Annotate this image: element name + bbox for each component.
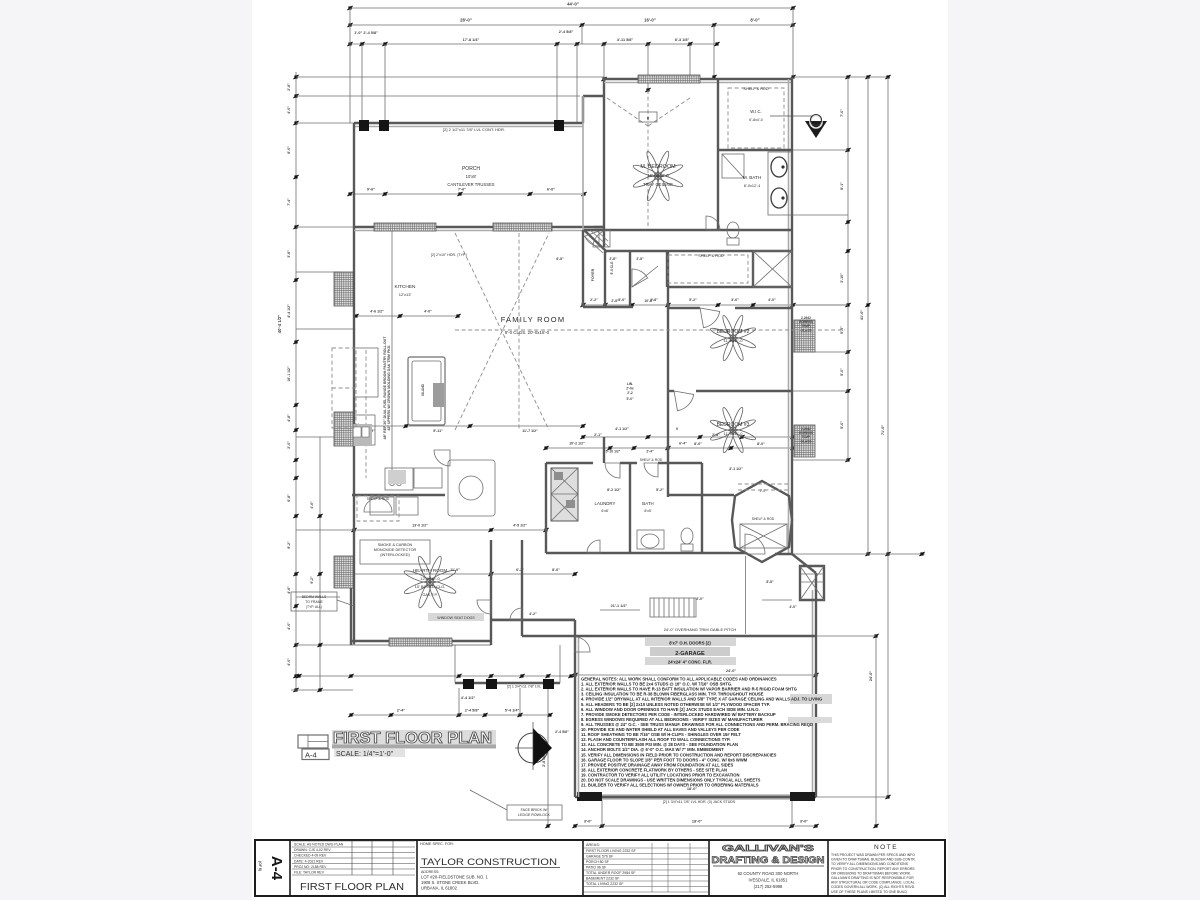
svg-text:2'-4 5/8": 2'-4 5/8" (555, 730, 569, 734)
svg-text:GLASS: GLASS (801, 439, 812, 443)
svg-text:8'-3 1/8": 8'-3 1/8" (675, 38, 690, 42)
garage door dropper x602 (601, 800, 603, 826)
fan master bedroom (632, 150, 684, 202)
mbath shower (722, 154, 744, 178)
svg-text:PATIO 96 SF: PATIO 96 SF (586, 866, 606, 870)
hearth patio door arc (477, 600, 491, 614)
face brick note (507, 805, 562, 820)
svg-text:SHELF & ROD: SHELF & ROD (698, 254, 724, 258)
left wall window upper (334, 272, 353, 306)
svg-text:FIRST FLOOR PLAN: FIRST FLOOR PLAN (300, 882, 404, 893)
left dim connector y272 (296, 271, 340, 273)
right wall diagonal step (792, 554, 816, 573)
svg-text:9'-0 CLG: 9'-0 CLG (610, 261, 614, 274)
bottom dim line y676 (299, 675, 571, 677)
svg-text:6'-8": 6'-8" (287, 494, 291, 502)
garage bottom dim y826 (575, 825, 816, 827)
right dim connector y554 (792, 553, 925, 555)
svg-text:10'x8': 10'x8' (466, 174, 477, 179)
plan title symbol box (298, 735, 328, 748)
mbd wall gap fill (582, 230, 584, 307)
stairs to garage (650, 598, 696, 617)
svg-text:PRIOR TO CONSTRUCTION. REPORT: PRIOR TO CONSTRUCTION. REPORT ANY ERRORS (831, 867, 915, 871)
svg-text:8'-2 1/2": 8'-2 1/2" (607, 488, 621, 492)
left dim connector y645 (296, 644, 351, 646)
label family room (613, 306, 615, 308)
front wall family room (354, 226, 604, 228)
svg-text:ANY STRUCTURAL OR CODE COMPLIA: ANY STRUCTURAL OR CODE COMPLIANCE. LOCAL (831, 881, 915, 885)
svg-text:(OF 8): (OF 8) (258, 861, 262, 871)
svg-text:4'-8": 4'-8" (287, 414, 291, 422)
hearth bottom wall (351, 640, 491, 642)
svg-text:3'-0": 3'-0" (618, 298, 626, 302)
svg-text:LAUNDRY: LAUNDRY (595, 501, 616, 506)
washer dryer (551, 468, 578, 521)
svg-text:URBANA, IL 61802: URBANA, IL 61802 (421, 886, 458, 891)
mbd left wall upper (603, 77, 605, 96)
svg-text:(INTERLOCKED): (INTERLOCKED) (380, 553, 410, 557)
svg-text:SMOKE & CARBON: SMOKE & CARBON (378, 543, 413, 547)
svg-text:GALLIVAN'S DRAFTING IS NOT RES: GALLIVAN'S DRAFTING IS NOT RESPONSIBLE F… (831, 876, 914, 880)
dim dropper x362 (361, 44, 363, 126)
svg-text:TOTAL UNDER ROOF 2984 SF: TOTAL UNDER ROOF 2984 SF (586, 871, 636, 875)
svg-text:7'-6": 7'-6" (458, 188, 466, 192)
great room banner (428, 613, 484, 621)
dim line y391 connector (793, 390, 848, 392)
svg-text:TO FRAME: TO FRAME (305, 600, 323, 604)
svg-text:BEDROOM #2: BEDROOM #2 (717, 329, 750, 335)
svg-text:2'-2": 2'-2" (590, 298, 598, 302)
svg-text:8'-8": 8'-8" (766, 580, 774, 584)
bottom dim dropper x520 (519, 688, 521, 715)
svg-text:5'-6": 5'-6" (840, 368, 844, 376)
dim dropper x690 (689, 44, 691, 79)
svg-text:40'-4 1/2": 40'-4 1/2" (277, 315, 282, 333)
dim line y316 kitchen (356, 315, 458, 317)
svg-text:3'-8": 3'-8" (287, 250, 291, 258)
dim line y150 connector (793, 149, 848, 151)
svg-text:TRAY CEILING: TRAY CEILING (643, 182, 674, 187)
mbd closet divider vert (717, 79, 719, 230)
right dim connector y460 (793, 459, 848, 461)
svg-text:8'-0": 8'-0" (552, 568, 560, 572)
svg-text:0: 0 (676, 427, 678, 431)
mbd ridge dashed (647, 90, 649, 228)
family vault vertical (518, 233, 520, 430)
dim line y574 hearth (351, 573, 575, 575)
svg-text:(217) 252-5998: (217) 252-5998 (754, 884, 783, 889)
bed2 top wall y308 (668, 307, 700, 309)
laundry bath top wall (546, 462, 593, 464)
mbd left wall (603, 96, 605, 247)
svg-text:8'-0": 8'-0" (757, 442, 765, 446)
dim dropper x577 (576, 44, 578, 123)
svg-text:2'-8": 2'-8" (609, 257, 617, 261)
left dim connector y96 (296, 95, 580, 97)
bed2 bed3 divider (668, 390, 674, 392)
left dim connector y530 (296, 529, 354, 531)
svg-text:2'-0": 2'-0" (760, 489, 768, 493)
foyer top wall y251 (605, 250, 633, 252)
dim line y426 kitchen (356, 425, 583, 427)
kitchen sink cabinet (352, 415, 375, 445)
svg-text:8'-0x12'-4: 8'-0x12'-4 (744, 184, 760, 188)
hall wall x604 lower (603, 437, 605, 463)
svg-text:4'-0": 4'-0" (287, 622, 291, 630)
svg-text:CHECKED 4-09 REV: CHECKED 4-09 REV (294, 854, 327, 858)
laundry left wall (545, 463, 547, 553)
svg-text:SCALE: 1/4"=1'-0": SCALE: 1/4"=1'-0" (336, 751, 394, 758)
svg-text:4'-1 1/2": 4'-1 1/2" (615, 427, 629, 431)
svg-text:SHELF & ROD: SHELF & ROD (752, 517, 775, 521)
note highlight band 1 (790, 694, 832, 704)
svg-text:4'-4 1/2": 4'-4 1/2" (287, 304, 291, 318)
garage right dim connector y636 (816, 635, 876, 637)
dim line third level segments (350, 43, 717, 45)
svg-text:A-4: A-4 (268, 856, 285, 881)
svg-text:11'-0x11'-0: 11'-0x11'-0 (724, 338, 744, 343)
right wall window bed3 (794, 425, 815, 457)
svg-text:5'-4 1/4": 5'-4 1/4" (505, 709, 520, 713)
kitchen niche arc (364, 498, 392, 512)
family vault diagonal 1 (455, 233, 549, 430)
svg-text:BASEMENT 2232 SF: BASEMENT 2232 SF (586, 877, 619, 881)
family vault horizontal (455, 329, 845, 331)
right exterior wall (791, 77, 793, 554)
bath sink (641, 534, 659, 548)
svg-text:4'-0": 4'-0" (424, 310, 432, 314)
svg-text:10'-8": 10'-8" (644, 299, 654, 303)
svg-text:FIRST FLOOR PLAN: FIRST FLOOR PLAN (333, 730, 492, 747)
svg-text:DRAFTING & DESIGN: DRAFTING & DESIGN (712, 855, 825, 865)
dim dropper x582 (581, 25, 583, 44)
north arrow (518, 733, 548, 763)
dim line y305 bedroom hall (583, 304, 848, 306)
kitchen door arc (510, 608, 522, 620)
svg-text:THIS PROJECT WAS DRAWN PER SPE: THIS PROJECT WAS DRAWN PER SPECS AND INF… (831, 853, 915, 857)
svg-text:2'-4": 2'-4" (646, 450, 654, 454)
svg-text:24'x24' 4" CONC. FLR.: 24'x24' 4" CONC. FLR. (668, 660, 712, 665)
svg-text:CODES GOVERN ALL WORK. (C) ALL: CODES GOVERN ALL WORK. (C) ALL RIGHTS RS… (831, 885, 915, 889)
left wall window lower (334, 556, 353, 588)
svg-text:BATH: BATH (642, 501, 653, 506)
front wall window right (493, 223, 552, 231)
svg-text:9'-0 CLGS. 20'-0x16'-0: 9'-0 CLGS. 20'-0x16'-0 (505, 330, 550, 335)
fan hearth room (403, 555, 457, 609)
svg-text:[2] 2"x10" HDR. (TYP.): [2] 2"x10" HDR. (TYP.) (431, 253, 467, 257)
svg-text:FIRST FLOOR LIVING 2232 SF: FIRST FLOOR LIVING 2232 SF (586, 849, 636, 853)
front door arc (745, 534, 765, 554)
svg-text:TO VERIFY ALL DIMENSIONS AND C: TO VERIFY ALL DIMENSIONS AND CONDITIONS (831, 862, 909, 866)
hall wall x667 (666, 251, 668, 287)
plan scale bar (334, 749, 405, 757)
kitchen counter edge (391, 231, 393, 477)
svg-text:TOTAL LIVING 2232 SF: TOTAL LIVING 2232 SF (586, 882, 623, 886)
corner fireplace diagonal (584, 230, 607, 252)
dim dropper x385 (384, 44, 386, 126)
dim dropper x350 (349, 8, 351, 123)
kitchen bottom wall (352, 494, 445, 496)
plan sheet ref box (302, 749, 329, 760)
hearth bottom window (389, 638, 452, 646)
svg-text:PORCH: PORCH (462, 166, 480, 172)
svg-text:5'-10 1/2": 5'-10 1/2" (606, 450, 621, 454)
mbd closet dashed (728, 88, 784, 148)
svg-text:62 COUNTY ROAD 300 NORTH: 62 COUNTY ROAD 300 NORTH (738, 871, 799, 876)
svg-text:5'-0": 5'-0" (626, 397, 634, 401)
svg-text:2'-1": 2'-1" (594, 433, 602, 437)
foyer wall x605 (604, 251, 606, 307)
svg-text:W.I.C.: W.I.C. (750, 109, 761, 114)
svg-text:41'-0": 41'-0" (860, 310, 864, 321)
svg-text:24'-0": 24'-0" (726, 669, 737, 673)
patio side left (454, 645, 456, 683)
foyer angled door (632, 266, 658, 287)
patio post left (463, 679, 474, 689)
svg-text:10'-2 1/2": 10'-2 1/2" (569, 442, 585, 446)
porch post black left (359, 120, 369, 131)
porch header wall (354, 122, 583, 124)
svg-text:WINDOW SEAT DOGS: WINDOW SEAT DOGS (437, 616, 475, 620)
svg-text:3'-6": 3'-6" (731, 298, 739, 302)
garage right wall (815, 573, 817, 797)
mbd tray ceiling dash right (648, 98, 690, 126)
svg-text:12'x13': 12'x13' (399, 292, 412, 297)
svg-text:24'-0" OVERHANG TRIM GABLE PIT: 24'-0" OVERHANG TRIM GABLE PITCH (664, 627, 737, 632)
svg-text:5'-2": 5'-2" (656, 488, 664, 492)
svg-text:28'-0": 28'-0" (460, 18, 472, 23)
svg-text:16'-4x13'-0: 16'-4x13'-0 (647, 173, 669, 178)
svg-text:LEDGE ROWLOCK: LEDGE ROWLOCK (518, 813, 550, 817)
bedroom walls note (291, 592, 337, 611)
svg-text:M. BEDROOM: M. BEDROOM (640, 164, 676, 170)
svg-text:4'-0": 4'-0" (789, 605, 797, 609)
svg-text:5'-2": 5'-2" (689, 298, 697, 302)
svg-text:GAS F.P.: GAS F.P. (422, 593, 437, 597)
svg-text:DRAWN: CJS 4-02 REV: DRAWN: CJS 4-02 REV (294, 848, 331, 852)
porch right wall (582, 96, 584, 123)
hearth left jog (350, 574, 352, 645)
mbd tray ceiling dash left (607, 98, 648, 126)
svg-text:ADDRESS:: ADDRESS: (421, 870, 439, 874)
bath divider wall (629, 463, 631, 553)
svg-text:6'x8': 6'x8' (601, 509, 608, 513)
svg-text:USE OF THESE PLANS LIMITED TO: USE OF THESE PLANS LIMITED TO ONE BUILD. (831, 890, 908, 894)
svg-text:NOTE: NOTE (874, 844, 898, 851)
svg-text:GALLIVAN'S: GALLIVAN'S (722, 843, 815, 853)
mbd top wall (604, 78, 792, 80)
svg-text:4'-6": 4'-6" (287, 586, 291, 594)
nook table (448, 460, 495, 516)
dim dropper x604 (603, 44, 605, 79)
attic access arrow (770, 115, 812, 117)
bedroom closet top wall (633, 250, 792, 252)
svg-text:4'-0": 4'-0" (287, 106, 291, 114)
right wall window bed2 (794, 320, 815, 352)
svg-text:PORCH 80 SF: PORCH 80 SF (586, 860, 609, 864)
svg-text:71'-0": 71'-0" (881, 425, 885, 436)
svg-text:[2] 1 3/4"x11 7/8" LVL HDR. (3: [2] 1 3/4"x11 7/8" LVL HDR. (3) JACK STU… (663, 800, 736, 804)
svg-text:BEDRM WALLS: BEDRM WALLS (302, 595, 327, 599)
left dim connector y123 (296, 122, 354, 124)
bottom-left dim vertical x548 (547, 686, 549, 826)
bath right wall (701, 463, 703, 553)
dim line 44'-0" overall width (350, 7, 793, 9)
foyer wall x630 (629, 251, 631, 307)
svg-text:18'-0": 18'-0" (692, 820, 703, 824)
garage door jamb right (790, 792, 815, 801)
svg-text:17'-8 1/4": 17'-8 1/4" (463, 38, 480, 42)
svg-text:HOME SPEC. FOR:: HOME SPEC. FOR: (420, 842, 454, 846)
svg-text:8'x7' O.H. DOORS (2): 8'x7' O.H. DOORS (2) (669, 641, 711, 646)
mbd closet/bath divider (718, 149, 792, 151)
garage right dim connector y797 (816, 796, 888, 798)
entry wall segment (775, 553, 792, 555)
bath door arc top (644, 463, 658, 477)
svg-text:8'-0": 8'-0" (694, 442, 702, 446)
svg-text:2-GARAGE: 2-GARAGE (675, 651, 705, 657)
mbath door arc (706, 216, 720, 230)
svg-text:6'-8x4'-0: 6'-8x4'-0 (749, 118, 763, 122)
left exterior wall (353, 123, 355, 645)
svg-text:2'-0x: 2'-0x (626, 387, 634, 391)
stoop outside (800, 566, 824, 600)
bed3 bottom wall (668, 494, 734, 496)
svg-text:8'-0": 8'-0" (287, 146, 291, 154)
svg-text:SHELF & ROD: SHELF & ROD (743, 87, 769, 91)
svg-text:3'-10": 3'-10" (840, 273, 844, 283)
bedroom closet bottom wall (668, 286, 792, 288)
garage bottom wall (575, 796, 816, 798)
svg-text:4'-0": 4'-0" (768, 298, 776, 302)
svg-text:DATE: 4-2021 REV: DATE: 4-2021 REV (294, 859, 324, 863)
laundry door arc (605, 463, 620, 478)
svg-text:11'-7 1/2": 11'-7 1/2" (522, 429, 538, 433)
svg-text:4'-4 1/2": 4'-4 1/2" (461, 696, 476, 700)
closet linen divider (752, 251, 754, 287)
svg-text:1'-0" 2'-4 5/8": 1'-0" 2'-4 5/8" (354, 31, 378, 35)
svg-text:M. BATH: M. BATH (743, 175, 761, 180)
svg-text:(TYP. ALL): (TYP. ALL) (306, 605, 322, 609)
linen X (753, 251, 792, 287)
fan bedroom 3 (709, 406, 756, 453)
svg-text:3'-0": 3'-0" (800, 820, 808, 824)
foyer wall x583 (582, 96, 584, 230)
mud stoop wall (491, 619, 575, 621)
svg-text:4'-6": 4'-6" (310, 501, 314, 509)
fan bedroom 2 (709, 314, 756, 361)
laundry bottom door arc (587, 540, 600, 553)
svg-text:24'-0": 24'-0" (869, 671, 873, 682)
front wall window left (374, 223, 436, 231)
left dim connector y77 (296, 76, 604, 78)
bedroom wing left wall (667, 287, 669, 497)
svg-text:IVESDALE, IL 61851: IVESDALE, IL 61851 (749, 878, 789, 883)
left dim connector y597 (296, 596, 340, 598)
svg-text:11'-0x11'-0: 11'-0x11'-0 (724, 431, 744, 436)
garage door jamb left (577, 792, 602, 801)
svg-text:FILE: TAYLOR REV: FILE: TAYLOR REV (294, 870, 325, 874)
garage right dim vertical x876 (875, 636, 877, 826)
svg-text:21'-1 1/2": 21'-1 1/2" (611, 604, 628, 608)
svg-text:[2] 2 1/2"x11 7/8" LVL CONT. H: [2] 2 1/2"x11 7/8" LVL CONT. HDR. (443, 127, 505, 132)
dim line y619 mud (491, 618, 575, 620)
mbath toilet (727, 222, 739, 238)
dim line y222 mbath (793, 214, 848, 216)
bed3 door arc (674, 391, 694, 411)
svg-text:7'-6": 7'-6" (840, 109, 844, 117)
svg-text:2'-4 5/8": 2'-4 5/8" (465, 709, 480, 713)
kitchen island (408, 357, 445, 425)
dim dropper x648 (647, 44, 649, 92)
left dim vertical x296 (295, 72, 297, 691)
svg-text:LIN.: LIN. (627, 382, 633, 386)
svg-text:8'-1": 8'-1" (840, 182, 844, 190)
svg-text:OR OMISSIONS TO DRAFTSMAN BEFO: OR OMISSIONS TO DRAFTSMAN BEFORE WORK. (831, 871, 911, 875)
porch post black right (554, 120, 564, 131)
patio header wall (455, 682, 560, 684)
dim line y194 porch (350, 193, 584, 195)
svg-text:9'-6": 9'-6" (367, 188, 375, 192)
kitchen counter dashed inner (365, 350, 367, 478)
left dim connector y690 (291, 689, 353, 691)
svg-text:FAMILY ROOM: FAMILY ROOM (501, 315, 566, 324)
mud hall left wall (490, 540, 492, 645)
patio post right (543, 679, 554, 689)
svg-text:13'-0 1/2": 13'-0 1/2" (412, 524, 428, 528)
svg-text:FACE BRICK W/: FACE BRICK W/ (521, 808, 548, 812)
mbd top window (638, 75, 700, 83)
dim line y352 bed2 window (793, 351, 848, 353)
bottom hall wall y554 (546, 552, 745, 554)
hall octagon (732, 481, 792, 562)
note highlight band 2 (788, 717, 832, 723)
right dim connector y77 (793, 76, 890, 78)
garage left wall (574, 636, 576, 797)
svg-text:10' BOXED CLG.: 10' BOXED CLG. (415, 584, 446, 589)
svg-text:ISLAND: ISLAND (421, 383, 425, 396)
dim line y437 hall (583, 436, 793, 438)
kitchen closet boxes (370, 497, 394, 515)
left dim connector y437 (296, 436, 354, 438)
svg-text:PROJ NO: 2188 REV: PROJ NO: 2188 REV (294, 865, 327, 869)
dim line 28'/16'/8' second level (350, 24, 793, 26)
svg-text:LOT #20-FIELDSTONE SUB. NO. 1: LOT #20-FIELDSTONE SUB. NO. 1 (421, 875, 489, 880)
svg-text:KITCHEN: KITCHEN (394, 284, 416, 290)
right dim vertical x888 (887, 77, 889, 797)
front entry door arc (585, 231, 599, 246)
svg-text:18'-0": 18'-0" (687, 787, 698, 791)
bath toilet (681, 528, 693, 544)
svg-text:SHELF & ROD: SHELF & ROD (367, 497, 390, 501)
mbath counter (768, 152, 792, 215)
bottom dim dropper x459 (458, 688, 460, 715)
svg-text:16'-0": 16'-0" (644, 18, 656, 23)
svg-text:GIVEN TO DRAFTSMAN. BUILDER AN: GIVEN TO DRAFTSMAN. BUILDER AND SUB-CONT… (831, 858, 916, 862)
svg-text:GARAGE 576 SF: GARAGE 576 SF (586, 855, 613, 859)
left gray margin band (0, 0, 252, 900)
svg-text:8'-0": 8'-0" (750, 18, 759, 23)
title block revision table (292, 840, 415, 842)
garage top wall (522, 635, 816, 637)
dim dropper x793 (792, 8, 794, 77)
dim dropper x557 (556, 44, 558, 126)
svg-text:6'-0": 6'-0" (547, 188, 555, 192)
svg-text:FOYER: FOYER (591, 268, 595, 281)
svg-text:A-4: A-4 (305, 751, 317, 760)
kitchen door arc (434, 450, 450, 466)
svg-text:2'-0": 2'-0" (696, 597, 704, 601)
